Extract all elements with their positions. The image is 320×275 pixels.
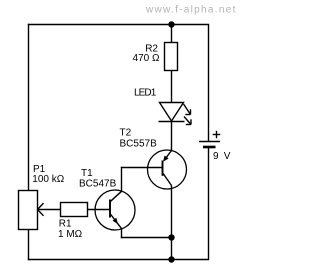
LED1 light arrow 2: [184, 117, 191, 125]
svg-text:BC557B: BC557B: [120, 139, 158, 150]
potentiometer P1 body: [19, 191, 38, 230]
svg-text:LED1: LED1: [134, 87, 157, 98]
svg-text:www.f-alpha.net: www.f-alpha.net: [145, 5, 237, 16]
battery BT1 positive plate: [199, 141, 220, 143]
wire T1 emitter down and right: [121, 228, 172, 238]
T2 base bar: [162, 161, 164, 176]
LED1 light arrow 1: [184, 104, 191, 115]
wire left rail upper: [28, 24, 30, 191]
battery plus sign: [213, 131, 221, 138]
wire junction to R2: [171, 25, 173, 43]
wire R2 to LED1: [171, 71, 173, 103]
transistor T2 circle: [148, 150, 187, 189]
svg-text:R1: R1: [59, 218, 72, 229]
wire T2 collector down: [171, 186, 173, 260]
node junction emitter-collector: [168, 234, 174, 240]
svg-text:T1: T1: [81, 168, 93, 179]
resistor R2 body: [165, 43, 178, 71]
svg-text:9 V: 9 V: [213, 151, 232, 162]
wire T1 collector to T2 base: [121, 167, 163, 192]
T1 base bar: [109, 200, 111, 218]
T2 collector lead: [163, 173, 172, 186]
T1 emitter lead with NPN arrow: [110, 214, 122, 229]
svg-text:T2: T2: [120, 127, 132, 138]
resistor R1 body: [61, 203, 88, 217]
T2 emitter lead with PNP arrow: [163, 151, 172, 162]
wire LED1 to T2 emitter: [171, 122, 173, 152]
battery BT1 negative plate: [203, 146, 216, 149]
wire bottom rail: [28, 259, 209, 261]
svg-text:100 kΩ: 100 kΩ: [32, 174, 64, 185]
wire top rail: [28, 24, 209, 26]
svg-text:BC547B: BC547B: [79, 178, 117, 189]
wire R1 to T1 base: [88, 209, 111, 211]
T1 collector lead: [110, 191, 122, 202]
node junction bottom rail: [168, 256, 174, 262]
wire right rail upper: [208, 24, 210, 142]
wire right rail lower: [208, 147, 210, 260]
node junction top: [168, 21, 174, 27]
LED1 cathode bar: [159, 121, 185, 123]
svg-text:470 Ω: 470 Ω: [133, 53, 160, 64]
LED1 triangle anode: [160, 103, 184, 122]
svg-text:1 MΩ: 1 MΩ: [58, 229, 83, 240]
wire wiper to R1: [38, 209, 61, 211]
P1 wiper arrow: [38, 203, 44, 216]
wire left rail lower: [28, 229, 30, 260]
transistor T1 circle: [95, 190, 135, 230]
